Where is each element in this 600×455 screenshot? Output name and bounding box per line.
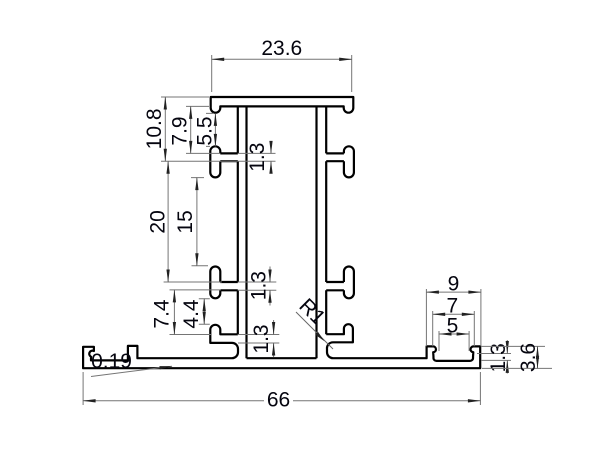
svg-text:3.6: 3.6 (517, 343, 540, 372)
dimension 20 extension line (164, 281, 222, 283)
dimension 5 extension lines (439, 331, 469, 351)
dimension 5 line (439, 333, 469, 335)
svg-text:15: 15 (174, 210, 197, 233)
dimension 15 line (196, 178, 198, 266)
hook L2 capsule (210, 267, 220, 299)
svg-text:10.8: 10.8 (143, 108, 166, 149)
dimension 15 extension ticks (191, 178, 208, 266)
hook R1 bar (326, 153, 344, 161)
svg-text:66: 66 (267, 389, 290, 412)
radius callout R1 leader (296, 312, 333, 349)
dimension 23.6 line (212, 58, 352, 60)
svg-text:23.6: 23.6 (261, 37, 302, 60)
svg-text:5.5: 5.5 (193, 116, 216, 145)
dimension 7 line (433, 313, 475, 315)
dimension 9 extension lines (426, 289, 481, 346)
dimension 9 line (426, 291, 481, 293)
dimension 7.4 extension lines (170, 290, 222, 335)
svg-text:7.9: 7.9 (169, 116, 192, 145)
hook L1 bar (220, 153, 238, 161)
svg-text:4.4: 4.4 (180, 299, 203, 329)
dimension 1.3 middle arrows (269, 267, 271, 283)
hook L2 bar (220, 282, 238, 290)
dimension 1.3 top extension lines (238, 153, 276, 161)
dimension 3.6 line (537, 346, 539, 368)
hook L1 capsule (210, 146, 220, 177)
wire tube inner-left wall (245, 106, 247, 358)
dimension 66 line (83, 400, 480, 402)
base outline with hook L3, left screw slot, bottom, right screw channel, hook R3 (83, 324, 480, 368)
svg-text:7.4: 7.4 (150, 299, 173, 329)
wire tube inner-right wall (315, 106, 317, 358)
wire tube outer-left wall (237, 106, 239, 334)
dimension 10.8 line (164, 97, 166, 161)
dimension 1.3 lower arrows (273, 320, 275, 335)
svg-text:20: 20 (147, 210, 170, 233)
dimension 66 extension lines (83, 372, 480, 405)
dimension 7 extension lines (433, 311, 475, 346)
dimension 1.3 lower extension lines (238, 335, 279, 344)
dimension 7.4 line (173, 290, 175, 335)
dimension 10.8 extension lines (161, 97, 238, 161)
dimension 7.9 extension lines (186, 106, 220, 153)
dimension 1.3 middle extension lines (238, 282, 276, 290)
svg-text:9: 9 (448, 272, 460, 295)
dimension 5.5 extension ticks (206, 113, 214, 146)
svg-text:1.3: 1.3 (246, 143, 269, 172)
dimension 7.9 line (190, 106, 192, 153)
dimension 4.4 line (203, 299, 205, 325)
dimension 4.4 extension ticks (199, 299, 210, 325)
dimension 5.5 line (214, 113, 216, 146)
svg-text:1.3: 1.3 (248, 271, 271, 300)
tube cavity floor (247, 357, 317, 359)
svg-text:5: 5 (447, 314, 459, 337)
hook R2 bar (326, 282, 344, 290)
dimension 3.6 extension lines (481, 346, 552, 368)
wire tube outer-right wall (325, 106, 327, 334)
svg-text:0.19: 0.19 (91, 350, 132, 373)
profile top cap with end bulbs (211, 97, 354, 113)
dimension 1.3 right extension lines (477, 354, 511, 361)
slope callout 0.19 leader (91, 366, 172, 376)
hook R1 capsule (344, 146, 354, 177)
dimension 23.6 extension lines (212, 55, 352, 92)
dimension 20 line (167, 161, 169, 282)
hook R2 capsule (344, 267, 354, 299)
svg-text:1.3: 1.3 (250, 324, 273, 353)
dimension 1.3 top arrows (270, 143, 272, 154)
dimension 1.3 right arrows (506, 340, 508, 354)
